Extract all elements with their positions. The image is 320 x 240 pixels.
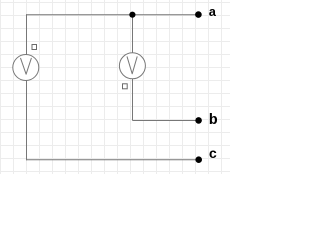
polarity marker square of V2: [123, 84, 128, 89]
polarity marker square of V1: [32, 45, 37, 50]
wire: horizontal to terminal b: [133, 120, 199, 122]
svg-text:c: c: [209, 147, 217, 163]
svg-text:a: a: [209, 5, 217, 20]
svg-text:b: b: [209, 112, 218, 129]
wire: left vertical branch through voltmeter V1: [26, 14, 28, 160]
terminal a dot: [195, 11, 202, 18]
terminal b dot: [195, 117, 202, 124]
wire: top horizontal from left branch to terminal a: [26, 14, 199, 16]
voltmeter V2 (circle with V): [119, 53, 145, 79]
wire: middle vertical branch through voltmeter V2: [132, 15, 134, 121]
terminal c dot: [195, 156, 202, 163]
junction dot on top wire: [129, 12, 135, 18]
voltmeter V1 (circle with V): [13, 55, 39, 81]
wire: bottom horizontal to terminal c: [26, 159, 199, 161]
